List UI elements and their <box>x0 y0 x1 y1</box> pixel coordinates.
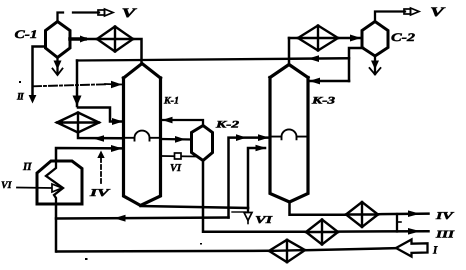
wire furnace outlet to K-1 <box>56 148 122 161</box>
furnace coil <box>46 161 63 204</box>
wire K-1 sidedraw to K-2 <box>161 138 191 141</box>
separator C-2 <box>362 22 388 57</box>
stream V open arrow (right) <box>404 8 419 15</box>
K-3 feed tray <box>271 129 307 139</box>
condenser E6 <box>298 26 338 51</box>
wire E2 bypass into K-1 <box>78 108 122 122</box>
furnace P <box>37 161 82 204</box>
wire K-2 bottoms to stream III <box>203 161 306 232</box>
wire reflux to K-3 top node <box>291 57 349 60</box>
svg-text:K-2: K-2 <box>214 120 239 131</box>
wire E6 to C-2 <box>338 37 361 40</box>
C-2 bottom vent arrow <box>374 56 376 74</box>
svg-text:VI: VI <box>255 215 273 226</box>
stream VI feed into furnace <box>17 187 52 190</box>
heat exchanger E5 <box>269 240 305 262</box>
riser to K-3 feed (upper) <box>229 138 269 218</box>
wire IV to III connector <box>396 214 398 232</box>
wire C-2 bottoms riser <box>349 48 363 81</box>
wire K-2 vapor return to K-1 <box>162 120 203 126</box>
wire C-1 to condenser E1 <box>70 38 96 41</box>
svg-text:II: II <box>16 92 25 103</box>
stream I feed line <box>57 250 269 253</box>
riser K-1 bottoms to K-3 lower feed <box>248 148 265 208</box>
svg-text:V: V <box>122 5 138 20</box>
wire C-1 bottoms to stream II <box>33 47 46 97</box>
C-1 bottom vent arrow <box>56 58 58 75</box>
svg-text:C-1: C-1 <box>15 29 38 41</box>
heat exchanger E2 <box>57 113 99 133</box>
wire reflux to K-3 upper side <box>309 80 349 83</box>
stream VI outlet open arrow <box>247 208 249 213</box>
separator C-1 <box>46 22 71 58</box>
condenser E1 <box>97 27 133 52</box>
wire K-1 circulation to furnace <box>56 218 229 219</box>
svg-text:I: I <box>432 245 438 257</box>
svg-text:K-3: K-3 <box>310 96 335 107</box>
wire K-3 bottoms to stream IV <box>290 202 347 215</box>
wire K-1 bottoms line <box>141 206 249 208</box>
heat exchanger E4 <box>306 220 338 245</box>
wire E2 bottom to K-1 sidedraw <box>78 133 123 139</box>
svg-text:V: V <box>430 4 446 19</box>
stream II dash-dot wire into K-1 <box>33 84 105 86</box>
wire furnace bottom pipe <box>55 204 58 252</box>
side stripper K-2 <box>192 126 213 161</box>
stream I block arrow <box>396 240 428 257</box>
column K-3 <box>270 65 308 203</box>
svg-text:III: III <box>435 230 456 241</box>
column K-1 <box>124 64 161 206</box>
noise dots <box>19 81 202 260</box>
K-1 feed tray <box>124 131 160 141</box>
svg-text:П: П <box>22 161 32 173</box>
svg-text:VI: VI <box>170 163 182 174</box>
wire C-2 top to stream V <box>375 12 405 22</box>
svg-text:K-1: K-1 <box>163 96 179 107</box>
wire C-1 top to stream V <box>58 13 64 22</box>
stream II arrow <box>29 95 37 104</box>
wire K-1 overhead long line to K-3 <box>77 59 289 61</box>
wire K-3 overhead to condenser <box>288 38 291 65</box>
wire down to exchanger E2 <box>76 61 79 107</box>
svg-text:VI: VI <box>1 180 13 191</box>
stream IV dashed arrow into feed line <box>100 158 102 184</box>
svg-text:C-2: C-2 <box>391 32 415 44</box>
svg-text:IV: IV <box>88 188 110 199</box>
ghost mark near VI junction <box>232 211 246 213</box>
stream V open arrow (left) <box>98 9 113 16</box>
svg-text:IV: IV <box>434 211 454 222</box>
wire K-1 to K-2 with orifice <box>162 155 196 158</box>
heat exchanger E3 <box>346 202 378 227</box>
wire E1 to K-1 overhead node <box>133 39 142 63</box>
